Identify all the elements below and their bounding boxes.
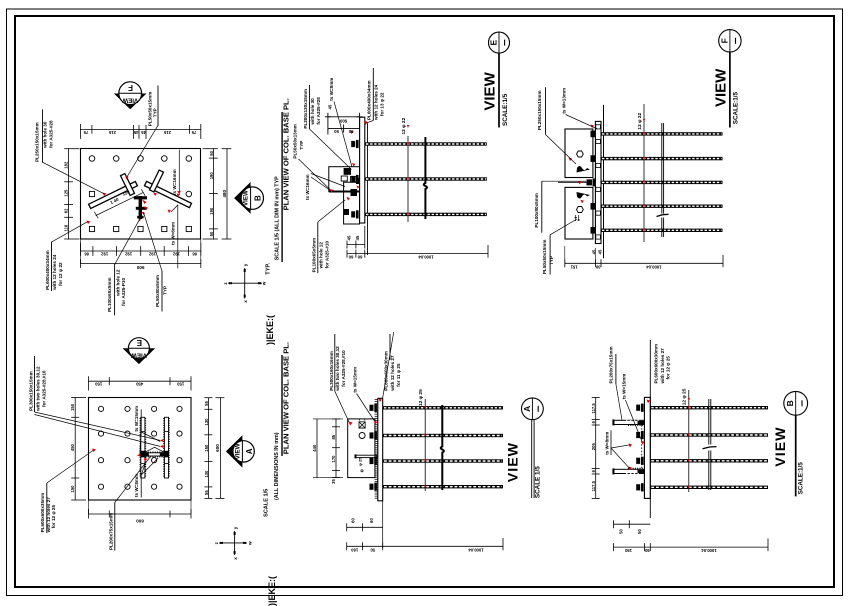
svg-text:VIEW: VIEW (131, 352, 147, 359)
svg-text:PL600x400x34mm: PL600x400x34mm (45, 250, 50, 290)
svg-text:50: 50 (348, 129, 353, 134)
svg-text:SCALE 1/5: SCALE 1/5 (263, 489, 269, 517)
view symbol E triangle (123, 348, 156, 364)
mini dim TM labels 50 (334, 129, 354, 134)
anchor rod TM 2 (365, 177, 487, 180)
svg-text:PL300x150x15mm: PL300x150x15mm (28, 371, 33, 411)
leader PL300 BM (335, 391, 349, 422)
left dim ticks view2 (71, 398, 86, 501)
rule PL100 TR (541, 181, 543, 233)
svg-text:215: 215 (108, 130, 116, 135)
title BR rule (795, 415, 797, 496)
svg-text:PL50x50x15mm: PL50x50x15mm (542, 240, 547, 274)
bracket lower rect TM (344, 182, 360, 224)
rod BR 4 centerline (651, 486, 767, 488)
svg-text:for 11 φ 25: for 11 φ 25 (396, 363, 401, 387)
svg-text:TYP: TYP (549, 256, 554, 265)
title TM rule (498, 53, 500, 127)
svg-text:45: 45 (355, 235, 360, 240)
svg-text:VIEW: VIEW (235, 443, 242, 459)
anchor rod BR 2 (650, 433, 768, 436)
leader tsW16 TM (311, 174, 345, 191)
rebar tie line TM (407, 136, 409, 222)
right dim labels (209, 150, 214, 236)
svg-text:55: 55 (204, 401, 209, 406)
left dim labels view2 (70, 403, 75, 492)
svg-text:150: 150 (95, 382, 103, 387)
bottom overall ticks (81, 239, 201, 268)
svg-text:150: 150 (204, 444, 209, 452)
small vert labels TR (591, 249, 602, 254)
annotation PL300x150x15mm view2 (28, 366, 46, 412)
base plate edge BR (644, 397, 650, 498)
leader tsW8 TM (334, 102, 352, 168)
svg-text:192: 192 (172, 252, 180, 257)
leader PL600 BM (383, 332, 394, 399)
bracket upper rect thick bottom (329, 191, 360, 193)
top dim ticks (81, 124, 201, 138)
washer small rect TM b (341, 176, 347, 181)
annotation PL600x600x30 BR (653, 344, 670, 385)
title BM rule double (532, 420, 534, 498)
rebar red dots TM (407, 125, 409, 216)
svg-text:ts W=8mm: ts W=8mm (134, 474, 139, 497)
svg-text:45: 45 (133, 130, 138, 135)
annotation PL200x130x15mm TM (303, 89, 321, 129)
concrete face line TM (367, 123, 369, 255)
svg-text:130: 130 (204, 470, 209, 478)
svg-text:192: 192 (101, 252, 109, 257)
svg-text:E: E (489, 39, 499, 45)
leader PL100 TR (542, 180, 586, 182)
leader PL600 TM (366, 121, 374, 124)
tiny arrows lower TR (575, 215, 581, 221)
svg-text:w: w (262, 281, 267, 286)
svg-text:215: 215 (163, 130, 171, 135)
view symbol F diamond triangle (114, 94, 147, 110)
crossbar on left gusset (121, 174, 135, 196)
leader PL600 to plate (52, 222, 88, 242)
svg-text:190: 190 (209, 172, 214, 180)
gusset plate upper TR (565, 129, 593, 178)
annotation PL600x400x34 TM (366, 80, 384, 121)
svg-text:VIEW: VIEW (482, 71, 499, 110)
flange endcap upper BR (612, 419, 614, 425)
red arrow ts16 (177, 191, 181, 195)
right dim labels view2 (204, 401, 209, 495)
svg-text:1000.04: 1000.04 (701, 548, 717, 553)
bottom small labels TM (346, 235, 360, 240)
nut washer BR 4 (636, 483, 643, 491)
view symbol B diameter line (250, 187, 252, 209)
svg-text:with 12 holes 24: with 12 holes 24 (52, 254, 57, 291)
double break BR (709, 399, 711, 490)
bottom small dim BR (614, 520, 651, 528)
hex bolt lower TR (577, 207, 584, 213)
weld squiggle lower TR (577, 192, 591, 199)
svg-text:1000.04: 1000.04 (418, 255, 434, 260)
leader PL50 TM (299, 159, 331, 190)
washer small rect TM c (350, 177, 356, 183)
svg-text:PL600x400x34mm: PL600x400x34mm (366, 80, 371, 120)
annotation rule PL50 top (157, 86, 159, 125)
annotation rule PL100 bottom (114, 265, 116, 315)
top dim ticks view2 (89, 376, 192, 390)
svg-text:ts W=6mm: ts W=6mm (171, 222, 176, 245)
right dim chain line (212, 149, 214, 239)
ts W=16mm leader line (178, 150, 180, 194)
svg-text:ts W=8mm: ts W=8mm (604, 432, 609, 455)
svg-text:PL200x75x15mm: PL200x75x15mm (608, 346, 613, 383)
rod TR 5 centerline (602, 229, 722, 231)
svg-text:SCALE 1/5 (ALL DIM IN mm) TYP: SCALE 1/5 (ALL DIM IN mm) TYP (275, 176, 281, 260)
svg-text:205: 205 (591, 443, 596, 451)
annotation rule PL200 view2 (114, 503, 116, 551)
svg-text:PL100x80x5mm: PL100x80x5mm (534, 193, 539, 227)
small squares on plate face TR (596, 125, 601, 239)
bracket upper rect TM (329, 167, 360, 192)
rod BM 4 centerline (384, 486, 502, 488)
compass 1 labels (223, 263, 267, 303)
svg-text:PL200x75x15mm: PL200x75x15mm (108, 513, 113, 550)
ts W=8 leaders view2 (141, 458, 158, 475)
svg-text:600: 600 (136, 519, 144, 524)
rod BR 1 centerline (651, 407, 767, 409)
right dim ticks view2 (204, 398, 212, 499)
svg-text:30: 30 (595, 264, 600, 269)
svg-text:150: 150 (70, 485, 75, 493)
nut and washer TM 2 (351, 175, 358, 183)
left overall dim BM (316, 419, 318, 478)
svg-text:with two holes 30,12: with two holes 30,12 (335, 346, 340, 392)
svg-text:SCALE:1/5: SCALE:1/5 (733, 92, 740, 125)
rebar red dots TR (643, 119, 645, 232)
title TR circle (719, 30, 741, 52)
bolt blob TM f (344, 209, 349, 215)
bottom main ticks TM (347, 245, 488, 258)
anchor rod TR 3 (601, 181, 723, 184)
double break TR (662, 123, 664, 237)
svg-text:192: 192 (124, 252, 132, 257)
annotation PL100x65x5 TM (311, 238, 329, 272)
svg-text:PL50x50x13mm: PL50x50x13mm (293, 124, 298, 158)
svg-text:50: 50 (644, 548, 649, 553)
svg-text:160: 160 (351, 547, 359, 552)
title BM circle line (531, 398, 533, 420)
svg-text:190: 190 (209, 207, 214, 215)
compass 2 cross (219, 531, 247, 555)
diagonal gusset left (89, 181, 138, 208)
svg-text:ts W=15mm: ts W=15mm (134, 406, 139, 432)
column line TR (603, 105, 605, 258)
svg-text:SCALE:1/5: SCALE:1/5 (798, 462, 805, 495)
left dim ticks (65, 149, 79, 239)
left dim labels BM (331, 434, 336, 484)
svg-text:450: 450 (135, 382, 143, 387)
left dim labels (64, 161, 69, 231)
bottom main dim TM (347, 253, 488, 255)
bottom main ticks BR (614, 539, 769, 552)
title TM circle line (498, 32, 500, 53)
svg-text:SCALE:1/5: SCALE:1/5 (502, 93, 509, 126)
svg-text:ts W=8mm: ts W=8mm (329, 78, 334, 101)
svg-text:VIEW: VIEW (713, 68, 730, 107)
svg-text:117.5: 117.5 (591, 480, 596, 491)
svg-text:VIEW: VIEW (506, 442, 522, 482)
svg-text:150: 150 (70, 403, 75, 411)
bolt blob TM e (351, 189, 358, 196)
annotation PL250x150x15mm (35, 120, 54, 162)
base plate PL600x400 plan (81, 149, 201, 240)
svg-text:for 12 φ 25: for 12 φ 25 (665, 356, 670, 380)
svg-text:50: 50 (370, 547, 375, 552)
ts W=15 leaders view2 (140, 432, 160, 455)
svg-text:600: 600 (215, 444, 220, 452)
svg-text:35: 35 (331, 479, 336, 484)
svg-text:PL600x600x35mm: PL600x600x35mm (40, 493, 45, 533)
svg-text:PL250x150x15mm: PL250x150x15mm (537, 90, 542, 130)
weld mark red left gusset (125, 176, 129, 180)
bottom dim ticks view2 (89, 500, 192, 519)
svg-text:50: 50 (637, 529, 642, 534)
left dim chain BM (335, 419, 337, 478)
title BM circle (522, 398, 544, 420)
nut washer BR 3 (636, 457, 643, 465)
bottom dim view2 (89, 513, 192, 515)
centre tee stub column (134, 196, 147, 219)
web leader chevron (145, 447, 165, 452)
svg-text:with 12 holes 27: with 12 holes 27 (390, 355, 395, 392)
title BR circle line (795, 391, 797, 415)
bolt studs on plate TR (591, 131, 596, 234)
rule tsW8 BR (610, 430, 612, 455)
annotation rule PL300 view2 (34, 356, 36, 412)
svg-text:for A325-#28,#10: for A325-#28,#10 (341, 350, 346, 387)
bolt X square BM (359, 419, 366, 428)
svg-text:150: 150 (177, 382, 185, 387)
title TR circle dash (735, 38, 737, 44)
svg-text:with 12 holes 27: with 12 holes 27 (660, 348, 665, 385)
leader PL50 bottom to tee (144, 213, 163, 272)
right overall dim line (226, 149, 228, 239)
crossbar on right gusset (150, 170, 164, 192)
rule PL200 TM (309, 85, 311, 129)
column line BR (649, 378, 651, 519)
svg-text:PLAN VIEW OF COL. BASE PL.: PLAN VIEW OF COL. BASE PL. (282, 342, 291, 454)
svg-text:440: 440 (312, 444, 317, 452)
diagonal gusset right (144, 181, 191, 207)
break bar BM (441, 405, 444, 490)
tiny circle BM (361, 470, 363, 472)
svg-text:118: 118 (64, 224, 69, 231)
bottom main labels BM (351, 547, 484, 552)
left dim chain view2 (74, 398, 76, 501)
weld mark red right diag end (154, 193, 158, 197)
right overall ticks (222, 149, 231, 239)
svg-text:E: E (136, 338, 142, 347)
title TM circle (489, 32, 510, 53)
svg-text:66: 66 (84, 252, 89, 257)
left dim chain BR (595, 397, 597, 498)
bolt head blob TM a (344, 168, 351, 175)
H section right flange (164, 417, 169, 478)
view symbol E circle (128, 338, 149, 359)
svg-text:TYP.: TYP. (265, 263, 271, 275)
annotation rule PL250 (42, 110, 44, 162)
svg-text:TYP: TYP (299, 141, 304, 150)
rod BM 2 centerline (384, 435, 502, 437)
view symbol A circle (233, 441, 254, 462)
svg-text:ts W=16mm: ts W=16mm (172, 169, 177, 195)
bottom dim labels (84, 252, 197, 257)
leader PL50 top to crossbar (127, 125, 158, 177)
nut washer BR 1 (636, 404, 643, 412)
svg-text:with hole 12: with hole 12 (318, 242, 323, 270)
bolt hole middle-left square (89, 191, 94, 196)
view symbol A triangle (226, 435, 243, 467)
svg-text:85: 85 (331, 434, 336, 439)
svg-text:PL600x600x30mm: PL600x600x30mm (384, 351, 389, 391)
svg-text:45: 45 (597, 249, 602, 254)
svg-text:50: 50 (209, 150, 214, 155)
svg-text:1000.04: 1000.04 (646, 264, 662, 269)
title view1 rule (281, 112, 283, 262)
svg-text:B: B (785, 400, 795, 406)
top dim labels (83, 130, 196, 135)
flange plate upper BR (614, 420, 645, 425)
nut washer BM 2 (370, 431, 377, 439)
svg-text:ts W=16mm: ts W=16mm (305, 174, 310, 200)
weld mark red ts6 (168, 210, 172, 214)
anchor rod TM 1 centerline (366, 143, 486, 145)
anchor rod TM 3 (365, 213, 487, 216)
weld marks red centre (139, 200, 149, 222)
annotation rule PL600 view2 (46, 483, 48, 533)
svg-text:PL100x65x5mm: PL100x65x5mm (311, 238, 316, 272)
stud cap BM (355, 454, 357, 458)
rod BM 3 centerline (384, 460, 502, 462)
flange nut lower BR (638, 470, 645, 473)
leader PL250 to gusset (43, 162, 104, 193)
rod TR 3 centerline (602, 181, 722, 183)
svg-text:182: 182 (64, 161, 69, 169)
annotation PL50x50x15 TM (293, 124, 305, 158)
bottom dim ticks TR (565, 255, 723, 267)
ts W=15 rule view2 (140, 410, 142, 433)
right overall dim view2 (219, 398, 221, 499)
annotation rule PL600 (51, 242, 53, 291)
svg-text:45: 45 (591, 249, 596, 254)
anchor rod BM 2 (383, 434, 503, 437)
title BR circle (784, 391, 808, 415)
nut washer BM 4 (370, 483, 377, 491)
svg-text:TYP: TYP (163, 286, 168, 295)
H section web (145, 452, 165, 456)
bottom dim TR (565, 262, 723, 264)
bottom overall dim line (81, 263, 201, 265)
annotation rule PL50 bottom (161, 271, 163, 311)
leader PL600 to plate view2 (47, 451, 93, 484)
bracket rect BM (348, 419, 375, 478)
base plate edge TR (595, 121, 601, 243)
rule PL100 TM (317, 222, 319, 273)
bolt holes top row (89, 156, 191, 162)
nut washer BR 2 (636, 431, 643, 439)
bottom main dim BR (614, 546, 769, 548)
red welds TR (569, 125, 595, 204)
svg-text:for A325-#28: for A325-#28 (49, 120, 54, 148)
anchor rod BM 4 (383, 485, 503, 488)
bottom main labels BR (624, 548, 716, 553)
rule PL600 BM (389, 334, 391, 360)
svg-text:117.5: 117.5 (591, 403, 596, 414)
svg-text:12 φ 22: 12 φ 22 (637, 112, 643, 129)
svg-text:ts W=15mm: ts W=15mm (621, 374, 626, 400)
svg-text:66: 66 (192, 252, 197, 257)
svg-text:φ 25: φ 25 (358, 457, 363, 466)
ts W=8 rule view2 (140, 475, 142, 498)
plate extension line BM (382, 501, 384, 548)
svg-text:y: y (243, 263, 248, 266)
svg-text:45: 45 (141, 130, 146, 135)
svg-text:VIEW: VIEW (243, 190, 250, 206)
compass 2 arrowheads (220, 532, 246, 554)
gusset plate lower TR (565, 187, 593, 239)
rod TR 2 centerline (602, 158, 722, 160)
anchor rod BM 3 (383, 459, 503, 462)
annotation PL50x50x15 TR (542, 240, 554, 274)
svg-text:170: 170 (331, 455, 336, 463)
bottom main dim BM (347, 545, 503, 547)
break bar TM (424, 137, 427, 219)
anchor rod TR 4 (601, 205, 723, 208)
bottom labels TR (570, 264, 662, 269)
rule PL250 TR (545, 87, 547, 134)
leader PL50 TR (550, 219, 577, 235)
title TR circle line (729, 30, 731, 52)
svg-text:450: 450 (70, 443, 75, 451)
bolt holes bottom row squares (89, 226, 191, 231)
annotation PL600x400x34mm (45, 250, 63, 291)
ts W=6mm leader line (177, 205, 179, 268)
bottom small dim BM (347, 523, 383, 531)
rebar red dots BR (688, 398, 690, 489)
bottom small labels BM (350, 518, 374, 523)
svg-text:150: 150 (624, 548, 632, 553)
right dim chain view2 (207, 398, 209, 499)
title view2 rule (281, 355, 283, 456)
anchor rod TR 5 (601, 229, 723, 232)
leader PL300 to flange R (35, 415, 161, 447)
svg-text:for A325-P10: for A325-P10 (121, 278, 126, 306)
svg-text:50: 50 (209, 231, 214, 236)
red arrows flanges (137, 439, 163, 462)
view symbol B triangle (234, 182, 251, 214)
svg-text:62: 62 (64, 208, 69, 213)
anchor rod TM 2 centerline (366, 178, 486, 180)
nut and washer TM 1 (351, 140, 358, 148)
weld mark red right gusset (177, 194, 181, 198)
red welds TM (330, 122, 368, 201)
svg-text:)|ЕKЕ:(: )|ЕKЕ:( (265, 315, 275, 345)
anchor rod TR 1 (601, 132, 723, 135)
anchor rod BR 3 (650, 459, 768, 462)
ts W=6mm jog (172, 205, 178, 212)
rod TR 1 centerline (602, 133, 722, 135)
rod BM 1 centerline (384, 407, 502, 409)
leaders tsW8 BR (611, 445, 630, 469)
leader tsW15 BR (625, 400, 642, 442)
